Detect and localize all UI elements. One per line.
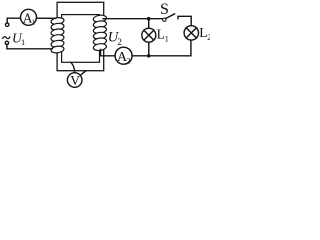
switch S right contact bar to L2	[178, 16, 191, 25]
wire: L1 top drop	[148, 20, 150, 28]
svg-text:1: 1	[32, 18, 36, 27]
ammeter A1	[21, 9, 37, 25]
label ~ (ac)	[2, 37, 10, 39]
switch S lever	[166, 14, 175, 19]
lamp L1	[142, 28, 156, 42]
wire: junction to L2 bottom	[151, 40, 191, 56]
node junction above L1	[147, 17, 151, 21]
svg-text:2: 2	[207, 33, 210, 42]
primary winding (left limb turns)	[51, 17, 65, 54]
svg-text:S: S	[160, 1, 169, 18]
svg-text:2: 2	[117, 37, 122, 47]
voltmeter V	[67, 73, 82, 88]
wire: source upper terminal to A1	[7, 18, 20, 23]
node junction below L1	[147, 54, 151, 58]
secondary winding (right limb turns)	[93, 14, 107, 51]
wire: A1 to primary top	[37, 17, 56, 19]
wire: secondary top lead to switch	[103, 18, 163, 20]
terminal lower	[5, 41, 8, 44]
wire: secondary bottom lead to A2	[101, 50, 116, 56]
svg-text:V: V	[70, 73, 80, 88]
svg-text:L: L	[157, 27, 165, 42]
transformer core inner window	[62, 15, 100, 63]
svg-text:L: L	[199, 25, 207, 40]
terminal upper	[6, 23, 9, 26]
switch S contact	[163, 18, 166, 21]
ammeter A2	[115, 47, 132, 64]
svg-text:2: 2	[126, 56, 130, 65]
svg-text:1: 1	[21, 37, 25, 47]
transformer core outer rectangle	[57, 2, 104, 70]
voltmeter V lead right	[81, 71, 86, 75]
wire: source lower terminal to primary bottom	[7, 45, 52, 49]
lamp L2	[184, 26, 198, 40]
wire: L1 bottom drop	[148, 42, 150, 54]
svg-text:1: 1	[165, 34, 169, 43]
voltmeter V lead left (to secondary bottom area)	[71, 62, 75, 72]
wire: A2 to junction below L1	[132, 55, 149, 57]
